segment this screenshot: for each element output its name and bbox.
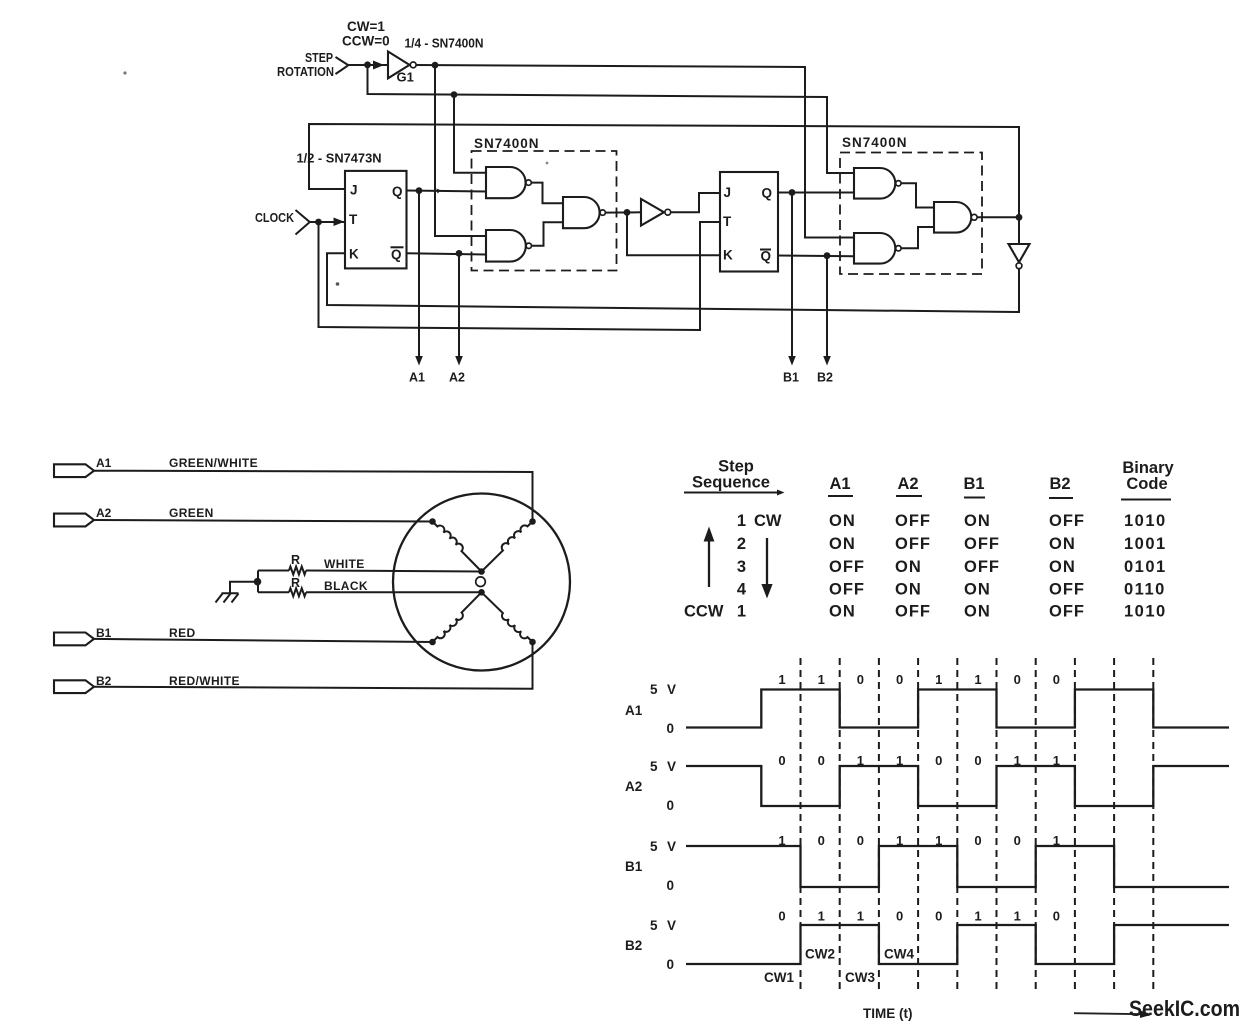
svg-text:Q: Q (392, 184, 403, 199)
NAND gate U2C (box2 output) (934, 202, 977, 233)
NAND gate U1C (box1 output) (563, 197, 605, 228)
wire U1B out to U1C (532, 222, 564, 246)
NAND gate U1A (box1 upper) (486, 167, 531, 198)
svg-text:A1: A1 (829, 475, 850, 493)
arrow CW (down) (766, 538, 768, 586)
svg-text:BLACK: BLACK (324, 579, 368, 593)
svg-text:B2: B2 (817, 371, 833, 385)
svg-text:0: 0 (778, 909, 785, 924)
node Q2 junction (789, 189, 796, 196)
time grid dashed lines (801, 658, 1154, 991)
NAND gate U2B (box2 lower) (854, 233, 901, 264)
wire U1C node to FF2 K (627, 212, 720, 255)
dashed box SN7400N (first) (472, 151, 617, 271)
inverter G1 (388, 52, 416, 85)
svg-text:V: V (667, 839, 676, 854)
svg-text:0: 0 (667, 957, 675, 972)
svg-text:T: T (349, 212, 358, 227)
svg-text:CW: CW (754, 512, 782, 530)
wire output A2 with arrow (458, 253, 460, 357)
NAND gate U1B (box1 lower) (486, 230, 532, 262)
svg-text:OFF: OFF (964, 558, 1000, 576)
label B2 row (625, 918, 676, 972)
svg-text:B1: B1 (625, 859, 643, 874)
svg-text:SN7400N: SN7400N (474, 136, 540, 151)
wire feedback top loop (line 3) to FF1 J (309, 124, 1019, 217)
svg-text:J: J (724, 185, 732, 200)
svg-text:0: 0 (857, 672, 864, 687)
svg-text:OFF: OFF (829, 558, 865, 576)
svg-text:0: 0 (778, 753, 785, 768)
wire U2C output to right rail (977, 216, 1019, 218)
wire FF2 Q to NAND3 lower input (778, 192, 854, 194)
svg-text:OFF: OFF (895, 512, 931, 530)
svg-text:A2: A2 (625, 779, 642, 794)
node U1C output junction (624, 209, 631, 216)
SeekIC.com logo arrow (1074, 1013, 1143, 1014)
svg-text:0: 0 (974, 753, 981, 768)
svg-text:B1: B1 (96, 626, 112, 640)
svg-text:1: 1 (1053, 753, 1060, 768)
svg-text:R: R (291, 576, 300, 590)
svg-text:T: T (723, 214, 732, 229)
label STEP ROTATION input (277, 51, 348, 79)
svg-text:G1: G1 (397, 70, 414, 85)
wire line2 drop to NAND1 upper input (454, 95, 486, 173)
resistor R (white lead) (258, 567, 306, 575)
svg-text:TIME (t): TIME (t) (863, 1006, 913, 1021)
svg-text:K: K (349, 247, 359, 262)
wire output B1 with arrow (791, 193, 793, 358)
svg-text:5: 5 (650, 682, 658, 697)
wire output B2 with arrow (826, 256, 828, 357)
connector A1 (54, 464, 94, 477)
svg-text:1/4 - SN7400N: 1/4 - SN7400N (405, 36, 484, 51)
node resistor common junction (254, 578, 262, 586)
svg-text:RED: RED (169, 626, 196, 640)
svg-text:OFF: OFF (1049, 603, 1085, 621)
wire rail down to inverter (1018, 217, 1020, 244)
svg-text:OFF: OFF (895, 603, 931, 621)
wire U1C output to inverter (605, 211, 641, 213)
svg-text:A1: A1 (625, 703, 643, 718)
winding coil (top-right) (482, 522, 533, 572)
svg-text:CW1: CW1 (764, 970, 794, 985)
wire A2 to winding (94, 520, 433, 522)
svg-text:0: 0 (896, 672, 903, 687)
wire STEP to G1 (348, 64, 388, 66)
label A2 row (625, 759, 676, 813)
svg-text:1: 1 (974, 909, 981, 924)
svg-text:1: 1 (1014, 753, 1021, 768)
svg-text:A2: A2 (96, 506, 112, 520)
wire BLACK to center tap (306, 591, 482, 593)
digits A2 (778, 753, 1060, 768)
svg-text:V: V (667, 759, 676, 774)
wire FF1 Qbar to NAND2 lower input (407, 253, 487, 254)
svg-text:5: 5 (650, 918, 658, 933)
label CW=1 / CCW=0 (342, 19, 390, 49)
svg-text:J: J (350, 183, 358, 198)
svg-text:2: 2 (737, 535, 746, 553)
connector B1 (54, 633, 94, 646)
svg-text:Code: Code (1126, 475, 1167, 493)
svg-text:ON: ON (964, 581, 991, 599)
svg-text:GREEN/WHITE: GREEN/WHITE (169, 456, 258, 470)
label CLOCK (255, 210, 310, 235)
svg-text:1/2 - SN7473N: 1/2 - SN7473N (297, 151, 382, 166)
node output rail junction (1016, 214, 1023, 221)
waveform B2 (686, 925, 1229, 964)
svg-text:K: K (723, 248, 733, 263)
svg-text:1010: 1010 (1124, 603, 1167, 621)
svg-text:Q: Q (391, 247, 402, 262)
svg-text:CW=1: CW=1 (347, 19, 385, 34)
svg-text:ON: ON (1049, 535, 1076, 553)
svg-text:0: 0 (1053, 909, 1060, 924)
svg-text:0: 0 (974, 833, 981, 848)
wire T loop (CLOCK to FF2 T) (319, 222, 721, 330)
svg-text:1: 1 (778, 672, 785, 687)
svg-text:B1: B1 (783, 371, 799, 385)
node STEP junction (364, 61, 371, 68)
connector A2 (54, 514, 94, 527)
speck (546, 162, 549, 165)
waveform A2 (686, 766, 1229, 806)
arrowhead into G1 (373, 61, 384, 70)
winding coil (bottom-right) (482, 592, 533, 642)
svg-text:ON: ON (829, 512, 856, 530)
svg-text:B1: B1 (963, 475, 984, 493)
svg-text:R: R (291, 553, 300, 567)
svg-text:V: V (667, 918, 676, 933)
svg-text:0: 0 (667, 798, 675, 813)
svg-text:ON: ON (829, 603, 856, 621)
inverter (between stages) (641, 199, 671, 226)
svg-text:ON: ON (964, 603, 991, 621)
svg-text:V: V (667, 682, 676, 697)
node winding terminal bottom-left (429, 639, 436, 646)
svg-text:WHITE: WHITE (324, 557, 365, 571)
node winding terminal top-right (529, 518, 536, 525)
wire output A1 with arrow (418, 191, 420, 357)
wire K loop (FF1 K to bottom inverter) (327, 253, 1019, 312)
waveform A1 (686, 690, 1229, 728)
svg-text:B2: B2 (625, 938, 642, 953)
svg-text:0: 0 (935, 753, 942, 768)
svg-text:1: 1 (896, 753, 903, 768)
svg-text:0: 0 (896, 909, 903, 924)
svg-text:1: 1 (1053, 833, 1060, 848)
svg-text:1: 1 (737, 603, 746, 621)
flip-flop FF1 1/2-SN7473N (345, 171, 407, 269)
svg-text:Q: Q (761, 249, 772, 264)
svg-text:0101: 0101 (1124, 558, 1167, 576)
wire G1 output to right corner (top line 1) (416, 65, 854, 238)
wire B1 to winding (94, 639, 433, 642)
svg-text:OFF: OFF (1049, 581, 1085, 599)
svg-text:0: 0 (818, 833, 825, 848)
svg-text:ON: ON (964, 512, 991, 530)
speck (336, 282, 340, 286)
label B1 row (625, 839, 676, 893)
svg-text:1001: 1001 (1124, 535, 1167, 553)
svg-text:0: 0 (667, 721, 675, 736)
node center tap upper (478, 568, 485, 575)
connector B2 (54, 680, 94, 693)
wire U2B out to U2C (901, 227, 934, 248)
node Q1 junction (416, 187, 423, 194)
ground (216, 593, 239, 602)
digits B1 (778, 833, 1060, 848)
svg-text:0: 0 (1014, 833, 1021, 848)
svg-text:SeekIC.com: SeekIC.com (1129, 996, 1240, 1021)
digits A1 (778, 672, 1060, 687)
wire B2 to winding (94, 642, 533, 689)
node center tap lower (478, 589, 485, 596)
svg-text:ON: ON (1049, 558, 1076, 576)
arrowhead into T (334, 218, 345, 227)
svg-text:CLOCK: CLOCK (255, 211, 294, 225)
arrow CCW (up) (708, 539, 710, 587)
node G1 output junction (432, 62, 439, 69)
svg-text:RED/WHITE: RED/WHITE (169, 674, 240, 688)
tick mark on Q1 wire (437, 189, 442, 194)
svg-text:0: 0 (1053, 672, 1060, 687)
svg-text:B2: B2 (1049, 475, 1070, 493)
wire FF1 Q to NAND1 lower input (407, 191, 487, 192)
wire U1A out to U1C (531, 183, 563, 204)
svg-text:OFF: OFF (964, 535, 1000, 553)
svg-text:CCW=0: CCW=0 (342, 34, 390, 49)
NAND gate U2A (box2 upper) (854, 168, 901, 199)
svg-text:OFF: OFF (895, 535, 931, 553)
svg-text:1: 1 (818, 909, 825, 924)
node on line 2 (451, 91, 458, 98)
svg-text:1: 1 (896, 833, 903, 848)
svg-text:3: 3 (737, 558, 746, 576)
svg-text:1: 1 (857, 753, 864, 768)
wire resistor common vertical (257, 571, 259, 593)
svg-text:ON: ON (895, 581, 922, 599)
speck (123, 71, 126, 74)
svg-text:A1: A1 (96, 456, 112, 470)
node Qbar2 junction (824, 252, 831, 259)
inverter (bottom right, pointing down) (1009, 244, 1030, 269)
svg-text:ROTATION: ROTATION (277, 65, 334, 79)
svg-text:0: 0 (818, 753, 825, 768)
flip-flop FF2 1/2-SN7473N (720, 172, 778, 272)
svg-text:OFF: OFF (1049, 512, 1085, 530)
svg-text:1: 1 (737, 512, 746, 530)
svg-text:ON: ON (829, 535, 856, 553)
svg-text:0110: 0110 (1124, 581, 1166, 599)
svg-text:0: 0 (1014, 672, 1021, 687)
resistor R (black lead) (258, 588, 306, 596)
svg-text:0: 0 (935, 909, 942, 924)
svg-text:CW3: CW3 (845, 970, 875, 985)
label A1 row (625, 682, 676, 736)
winding coil (bottom-left) (433, 592, 482, 642)
svg-text:CW4: CW4 (884, 947, 914, 962)
svg-text:1: 1 (935, 672, 942, 687)
svg-text:1: 1 (778, 833, 785, 848)
svg-text:1: 1 (974, 672, 981, 687)
svg-text:A1: A1 (409, 371, 425, 385)
wire G1 drop to NAND2 upper input (435, 65, 486, 236)
svg-text:STEP: STEP (305, 51, 333, 65)
wire STEP branch (top line 2) (368, 65, 855, 173)
wire U2A out to U2C (901, 183, 934, 207)
svg-text:0: 0 (857, 833, 864, 848)
digits B2 (778, 909, 1060, 924)
svg-text:OFF: OFF (829, 581, 865, 599)
wire FF2 Qbar to NAND4 lower input (778, 255, 854, 258)
svg-text:SN7400N: SN7400N (842, 135, 908, 150)
node winding terminal top-left (429, 518, 436, 525)
svg-text:5: 5 (650, 839, 658, 854)
rotor circle (476, 577, 486, 587)
svg-text:1010: 1010 (1124, 512, 1167, 530)
wire WHITE to center tap (306, 571, 482, 572)
svg-text:1: 1 (935, 833, 942, 848)
waveform B1 (686, 846, 1229, 887)
node winding terminal bottom-right (529, 639, 536, 646)
svg-text:Q: Q (762, 186, 773, 201)
svg-text:GREEN: GREEN (169, 506, 214, 520)
wire A1 to winding (94, 471, 533, 522)
winding coil (top-left) (433, 522, 482, 572)
svg-text:1: 1 (818, 672, 825, 687)
svg-text:ON: ON (895, 558, 922, 576)
wire CLOCK to FF1 T (310, 221, 346, 223)
dashed box SN7400N (second) (840, 153, 982, 275)
svg-text:Sequence: Sequence (692, 474, 770, 492)
svg-text:5: 5 (650, 759, 658, 774)
svg-text:1: 1 (857, 909, 864, 924)
motor stator circle (393, 494, 570, 671)
svg-text:A2: A2 (449, 371, 465, 385)
svg-text:1: 1 (1014, 909, 1021, 924)
svg-text:A2: A2 (897, 475, 918, 493)
svg-text:4: 4 (737, 581, 747, 599)
svg-text:CCW: CCW (684, 603, 724, 621)
node CLOCK junction (315, 219, 322, 226)
svg-text:CW2: CW2 (805, 947, 835, 962)
wire junction to ground (230, 582, 258, 594)
wire inverter out to FF2 J (671, 193, 720, 212)
svg-text:0: 0 (667, 878, 675, 893)
node Qbar1 junction (456, 250, 463, 257)
